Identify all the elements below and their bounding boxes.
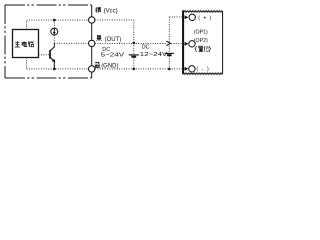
svg-text:( - ): ( - ) — [196, 67, 209, 73]
svg-text:(OP1): (OP1) — [194, 30, 208, 36]
node: OUT x Vcc riser — [133, 42, 136, 45]
wire: external GND (blue) — [95, 68, 184, 70]
arrow into OP — [185, 42, 189, 46]
terminal GND — [89, 66, 95, 72]
node: battery1 on GND — [133, 68, 136, 71]
label 黑 (OUT) — [97, 35, 102, 40]
left edge (thick) — [182, 10, 184, 74]
label 蓝 (GND) — [95, 62, 100, 68]
svg-text:(Vcc): (Vcc) — [104, 9, 118, 15]
node: Vcc rail junction — [53, 19, 56, 22]
(+) rail to box — [169, 16, 183, 18]
label 置位 — [195, 46, 211, 52]
transistor Q1 (NPN) — [50, 43, 55, 69]
wire: internal OUT rail — [54, 42, 88, 44]
label 主电路 — [15, 41, 34, 47]
arrow into (+) — [185, 15, 189, 19]
top edge (hatched) — [184, 11, 223, 13]
sensor enclosure (two-dot chain outline) — [5, 5, 92, 78]
svg-text:( + ): ( + ) — [198, 15, 211, 21]
controller box — [183, 10, 223, 74]
battery B1 (DC 5~24V) — [133, 43, 135, 55]
wire: external Vcc (brown) — [95, 19, 134, 21]
wire: box bottom to GND rail — [26, 58, 28, 69]
label 褐 (Vcc) — [95, 7, 100, 12]
current source (circle with down arrow) — [51, 28, 58, 35]
arrow on OUT wire — [166, 41, 170, 46]
wire: Vcc corner riser down — [133, 20, 135, 43]
bottom edge (hatched) — [184, 73, 223, 75]
svg-text:12~24V: 12~24V — [140, 52, 168, 58]
battery B2 (DC 12~24V) — [168, 43, 170, 53]
wire: internal GND rail — [27, 68, 89, 70]
terminal Vcc — [89, 17, 95, 23]
node: battery2 on GND — [168, 68, 171, 71]
wire: box top to Vcc rail — [26, 20, 28, 29]
arrow into (-) — [185, 67, 189, 71]
svg-text:5~24V: 5~24V — [101, 53, 125, 59]
right edge — [222, 11, 224, 73]
terminal (-) — [189, 66, 195, 72]
wire: base from main circuit box — [39, 54, 51, 56]
wire: internal Vcc rail — [27, 19, 89, 21]
node: emitter on GND rail — [53, 68, 56, 71]
emitter arrowhead — [52, 59, 56, 63]
terminal OP — [189, 41, 195, 47]
wire: external OUT (black) — [95, 42, 166, 44]
wire: current source to OUT node — [53, 35, 55, 43]
main circuit box — [13, 30, 39, 58]
svg-text:DC: DC — [142, 44, 150, 50]
terminal (+) — [189, 14, 195, 20]
svg-text:(OP2): (OP2) — [194, 38, 208, 44]
riser to (+) rail — [168, 17, 170, 44]
wire: junction down to current source — [53, 20, 55, 28]
terminal OUT — [89, 40, 95, 46]
svg-text:(OUT): (OUT) — [105, 37, 122, 43]
